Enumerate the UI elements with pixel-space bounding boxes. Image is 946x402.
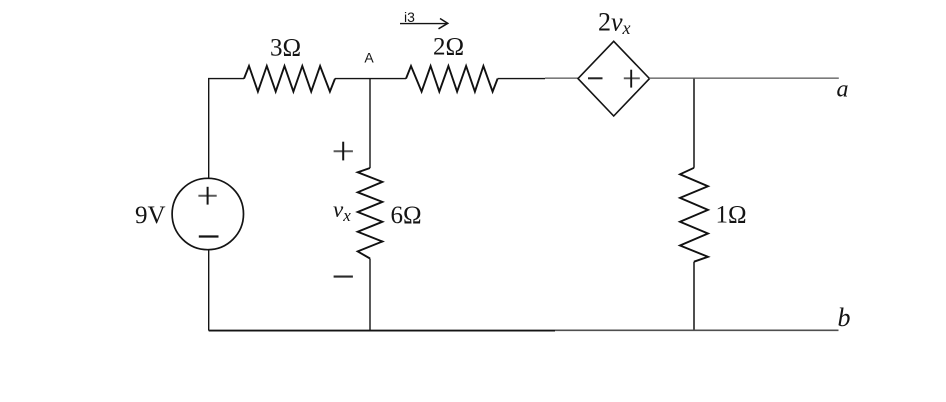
svg-text:a: a <box>837 77 849 103</box>
plus sign inside diamond <box>624 77 640 79</box>
wire: R3 bottom to bottom rail <box>369 259 371 331</box>
dependent source U1 diamond 2vx <box>578 41 650 116</box>
wire: R4 bottom to bottom rail <box>693 262 695 331</box>
wire: node A down to R3 top <box>369 79 371 168</box>
wire: source bottom to bottom rail <box>208 250 210 330</box>
svg-text:b: b <box>838 303 851 332</box>
minus sign inside diamond <box>588 77 603 79</box>
wire: bottom rail to terminal b (gray part) <box>555 329 839 331</box>
minus sign below vx <box>334 276 353 278</box>
svg-text:1Ω: 1Ω <box>716 201 747 228</box>
current i3 arrow <box>400 23 447 25</box>
svg-text:A: A <box>364 50 374 66</box>
resistor R3 6ohm (vertical zigzag) <box>358 168 383 259</box>
resistor R4 1ohm (vertical zigzag) <box>680 168 708 262</box>
resistor R2 2ohm (horizontal zigzag) <box>406 66 498 92</box>
svg-text:9V: 9V <box>135 202 166 229</box>
resistor R1 3ohm (horizontal zigzag) <box>244 66 335 92</box>
svg-text:i3: i3 <box>404 9 415 25</box>
svg-text:2Ω: 2Ω <box>433 34 464 61</box>
wire: R1 to R2 across node A <box>335 78 406 80</box>
wire: left vertical + top-left horizontal to R1 <box>209 79 244 179</box>
wire: bottom rail (black part) <box>209 330 555 332</box>
plus sign inside source <box>198 195 216 197</box>
svg-text:3Ω: 3Ω <box>270 35 301 62</box>
wire: to dependent source left vertex (gray part) <box>545 77 578 79</box>
voltage source V1 9V circle <box>172 178 243 249</box>
svg-text:6Ω: 6Ω <box>391 202 422 229</box>
wire: dependent source to terminal a (gray) <box>650 77 839 79</box>
wire: top rail junction down to R4 top <box>693 79 695 168</box>
plus sign above vx <box>334 150 353 152</box>
wire: R2 to dependent source (black part) <box>498 78 545 80</box>
minus sign inside source <box>199 235 219 237</box>
